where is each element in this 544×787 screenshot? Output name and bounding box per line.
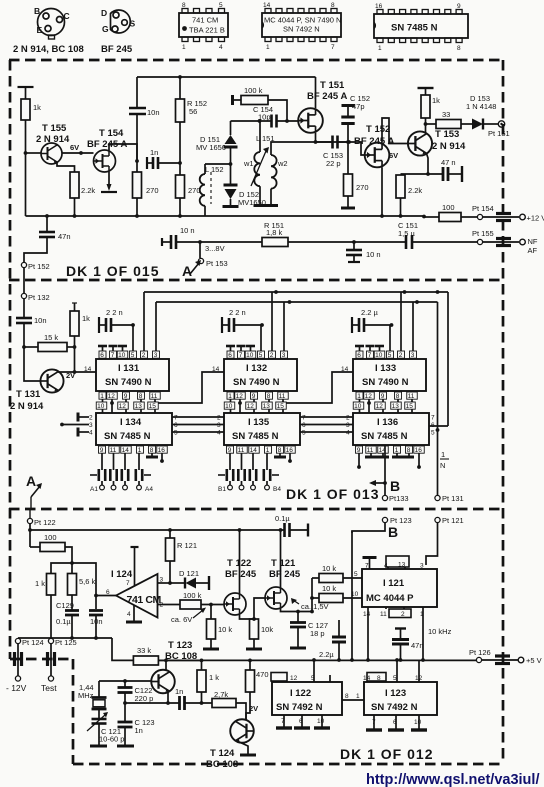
svg-text:12: 12: [108, 393, 116, 400]
svg-text:BC 108: BC 108: [206, 759, 238, 770]
wire rail right end up to 100 ohm: [422, 215, 426, 219]
bottom rail DK015: [26, 215, 425, 217]
wire T155 collector to T154 gate: [62, 152, 94, 154]
wire T154 drain to 10n column: [109, 144, 137, 161]
wire 1k to rail: [25, 120, 27, 216]
svg-text:3...8V: 3...8V: [205, 244, 225, 253]
svg-text:S: S: [130, 19, 136, 29]
terminal Pt124: [15, 638, 20, 643]
svg-text:A4: A4: [145, 486, 153, 493]
ground bar pin8: [279, 453, 281, 456]
svg-text:BF 245: BF 245: [225, 569, 257, 580]
svg-text:1: 1: [378, 45, 382, 52]
svg-text:B4: B4: [273, 486, 281, 493]
svg-text:A: A: [26, 473, 37, 489]
svg-text:11: 11: [408, 393, 415, 400]
wire T153 emitter: [427, 154, 429, 175]
svg-text:3: 3: [420, 563, 424, 570]
svg-text:N: N: [440, 461, 445, 470]
svg-text:12: 12: [247, 403, 255, 410]
IC package MC4044P/SN7490N/SN7492N: [262, 2, 341, 51]
svg-text:T 124: T 124: [210, 748, 235, 759]
wire T122 drain: [239, 530, 241, 593]
svg-text:14: 14: [363, 675, 371, 682]
svg-text:3: 3: [411, 352, 415, 359]
svg-text:1,8 k: 1,8 k: [266, 228, 283, 237]
svg-text:w1: w1: [243, 159, 254, 168]
svg-text:10: 10: [246, 352, 254, 359]
svg-text:B1: B1: [218, 486, 226, 493]
capacitor C153 22p (series): [316, 141, 333, 143]
capacitor 2.2 &#181;: [351, 317, 353, 333]
svg-text:13: 13: [135, 403, 143, 410]
resistor 270 (R152 column): [176, 175, 185, 198]
svg-text:+5 V: +5 V: [526, 656, 542, 665]
svg-text:SN 7485 N: SN 7485 N: [232, 431, 279, 442]
svg-text:I 124: I 124: [111, 569, 133, 580]
svg-text:12: 12: [236, 393, 244, 400]
node T155 base: [24, 151, 28, 155]
svg-text:6V: 6V: [389, 151, 398, 160]
svg-text:100: 100: [442, 203, 455, 212]
resistor 270 (T154 drain column): [133, 172, 142, 198]
transistor can 2N914/BC108: [34, 6, 70, 39]
svg-text:10 k: 10 k: [322, 584, 336, 593]
svg-text:10k: 10k: [261, 625, 273, 634]
svg-text:NF: NF: [528, 237, 538, 246]
top rail DK015: [137, 76, 316, 78]
svg-text:7: 7: [331, 44, 335, 51]
resistor 10k (T122 source): [250, 619, 259, 639]
resistor 1k (T155 base): [21, 99, 30, 120]
I121 pin7 supply bar: [369, 558, 371, 569]
border bottom edge: [73, 763, 503, 766]
svg-text:+12 V: +12 V: [527, 214, 544, 223]
svg-text:12: 12: [376, 403, 384, 410]
capacitor C127 18p: [297, 612, 299, 623]
svg-text:1n: 1n: [175, 687, 183, 696]
svg-text:DK 1 OF 012: DK 1 OF 012: [340, 746, 433, 762]
svg-text:2.2k: 2.2k: [408, 186, 422, 195]
wire T131 to I131 pin14: [58, 371, 96, 373]
svg-text:10: 10: [354, 403, 362, 410]
IC I 133 SN 7490 N: [389, 325, 391, 359]
border left edge: [9, 60, 12, 659]
svg-text:6: 6: [228, 352, 232, 359]
opamp pin7 stub: [134, 547, 136, 587]
IC I 131 SN 7490 N: [132, 325, 134, 359]
svg-text:T 152: T 152: [366, 124, 390, 135]
I121 jumper pins 11-2: [385, 607, 387, 609]
svg-text:0.1µ: 0.1µ: [275, 514, 290, 523]
svg-text:8: 8: [182, 2, 186, 9]
svg-text:SN 7490 N: SN 7490 N: [105, 377, 152, 388]
wire I122 to I123: [342, 699, 364, 701]
capacitor 10n: [89, 609, 103, 612]
IC I123 SN7492N: [364, 682, 437, 715]
svg-text:15: 15: [149, 403, 157, 410]
svg-text:7: 7: [365, 563, 369, 570]
svg-text:3: 3: [89, 422, 93, 429]
wire I123 pin5 to rail: [396, 660, 398, 682]
svg-text:220 p: 220 p: [135, 694, 154, 703]
terminal Pt123: [382, 517, 387, 522]
terminal -12V: [15, 676, 20, 681]
svg-text:L 152: L 152: [205, 165, 224, 174]
svg-text:10-60 p: 10-60 p: [99, 735, 124, 744]
terminal Pt131: [435, 495, 440, 500]
svg-text:10n: 10n: [90, 617, 103, 626]
emitter line y703: [125, 702, 179, 704]
svg-text:Test: Test: [41, 683, 57, 693]
resistor 10k (to pin5): [311, 578, 313, 612]
svg-text:D 121: D 121: [179, 569, 199, 578]
svg-text:D: D: [101, 8, 107, 18]
svg-text:14: 14: [363, 611, 371, 618]
svg-text:4: 4: [217, 430, 221, 437]
svg-text:270: 270: [356, 183, 369, 192]
svg-text:12: 12: [365, 393, 373, 400]
svg-text:T 131: T 131: [16, 389, 41, 400]
NF output line: [162, 241, 171, 243]
svg-text:I 121: I 121: [383, 578, 405, 589]
svg-text:10 k: 10 k: [322, 564, 336, 573]
resistor 2.2k (T155 emitter): [70, 172, 79, 198]
capacitor 10n (AF line): [170, 235, 173, 249]
svg-text:10: 10: [118, 352, 126, 359]
wire rail to capacitor 10n: [136, 77, 138, 108]
ground bar pin8: [151, 453, 153, 456]
transistor T124: [230, 719, 254, 743]
svg-text:10: 10: [375, 352, 383, 359]
svg-text:SN 7492 N: SN 7492 N: [283, 25, 320, 34]
svg-text:BF 245: BF 245: [101, 44, 133, 55]
svg-text:2.2µ: 2.2µ: [319, 650, 334, 659]
wires I134 outputs to I135 inputs: [172, 416, 224, 418]
svg-text:DK 1 OF 013: DK 1 OF 013: [286, 486, 379, 502]
transistor can BF245: [101, 8, 136, 34]
capacitor 10n (drain decoupling): [129, 107, 146, 110]
separator DK015/DK013: [9, 279, 503, 282]
capacitor 2.2u: [338, 620, 340, 637]
svg-text:2 N 914: 2 N 914: [432, 141, 466, 152]
svg-text:8: 8: [331, 2, 335, 9]
svg-text:8: 8: [345, 693, 349, 700]
feedthrough capacitor +12V: [496, 212, 511, 215]
svg-text:T 123: T 123: [168, 640, 192, 651]
resistor 2.7k: [212, 699, 236, 708]
supply T-bar over 1k right: [418, 87, 434, 89]
jumper field A1..A4: [101, 453, 103, 470]
svg-text:741 CM: 741 CM: [192, 16, 218, 25]
5V rail: [158, 659, 477, 661]
wire to 15k: [23, 323, 25, 347]
wire base T155: [26, 152, 42, 154]
transistor T153: [408, 131, 432, 155]
svg-text:MHz: MHz: [78, 691, 94, 700]
wire T151 source down: [315, 133, 317, 142]
svg-text:1k: 1k: [432, 96, 440, 105]
feedthrough capacitor +5V: [495, 654, 510, 657]
svg-text:15: 15: [406, 403, 414, 410]
svg-text:4: 4: [219, 44, 223, 51]
svg-text:6: 6: [100, 352, 104, 359]
svg-text:100 k: 100 k: [244, 86, 263, 95]
svg-text:AF: AF: [528, 246, 538, 255]
diode D152 MV1650 (varactor): [230, 164, 232, 184]
resistor 270 (C152 column): [344, 174, 353, 196]
opamp pin4 ground: [133, 605, 135, 621]
resistor 1k: [51, 563, 72, 574]
border bottom-left jog vertical: [72, 659, 75, 764]
svg-text:56: 56: [189, 107, 197, 116]
svg-text:2: 2: [142, 352, 146, 359]
wire I132 pin11 to I133 pin14: [283, 372, 353, 403]
svg-text:R 121: R 121: [177, 541, 197, 550]
resistor 10k (bias): [210, 605, 212, 620]
wire Pt123 to divider line: [352, 523, 385, 534]
diode D121: [170, 582, 185, 584]
svg-text:T 155: T 155: [42, 123, 67, 134]
svg-text:MV 1650: MV 1650: [196, 143, 226, 152]
svg-text:7: 7: [431, 415, 435, 422]
svg-text:2: 2: [217, 415, 221, 422]
svg-text:10 n: 10 n: [366, 250, 381, 259]
resistor 100: [30, 546, 40, 548]
svg-text:741 CM: 741 CM: [127, 594, 162, 606]
wire T123 emitter: [167, 693, 169, 704]
svg-text:10: 10: [414, 719, 422, 726]
svg-text:DK 1 OF 015: DK 1 OF 015: [66, 263, 159, 279]
svg-text:w2: w2: [277, 159, 288, 168]
IC package SN7485N: [374, 3, 468, 52]
svg-text:100: 100: [44, 533, 57, 542]
svg-text:T 154: T 154: [99, 128, 124, 139]
svg-text:SN 7485 N: SN 7485 N: [104, 431, 151, 442]
terminal +12V: [520, 214, 526, 220]
resistor 100 to +12V: [424, 216, 439, 218]
svg-text:8: 8: [396, 393, 400, 400]
svg-text:Pt 153: Pt 153: [206, 259, 228, 268]
svg-text:7: 7: [111, 352, 115, 359]
svg-text:4: 4: [127, 611, 131, 618]
wire T151 drain to rail: [315, 77, 317, 108]
wire I121 pin1 to 5V rail: [422, 607, 424, 660]
svg-text:0.1µ: 0.1µ: [56, 617, 71, 626]
svg-text:10 kHz: 10 kHz: [428, 627, 452, 636]
terminal Pt153: [198, 258, 203, 263]
feedthrough capacitor NF: [496, 237, 511, 240]
terminal Pt125: [48, 638, 53, 643]
terminal Pt122: [27, 518, 32, 523]
svg-text:Pt 124: Pt 124: [22, 638, 44, 647]
wire base T131: [24, 347, 41, 381]
wire Pt132 down: [23, 299, 25, 318]
svg-text:11: 11: [380, 611, 387, 618]
op-amp I124 741CM: [116, 574, 158, 618]
I136 pin14 to node B: [384, 445, 386, 495]
svg-text:12: 12: [119, 403, 127, 410]
svg-text:Pt 154: Pt 154: [472, 204, 494, 213]
capacitor C123 1n: [124, 693, 126, 722]
svg-text:1: 1: [228, 393, 232, 400]
resistor 100k (T151 gate bias): [231, 95, 234, 105]
svg-text:Pt133: Pt133: [389, 494, 409, 503]
transistor T121 (FET): [265, 587, 287, 609]
svg-text:15: 15: [277, 403, 285, 410]
svg-text:14: 14: [263, 2, 271, 9]
terminal Pt155: [477, 239, 482, 244]
svg-text:B: B: [390, 478, 401, 494]
IC I 136 SN 7485 N: [353, 413, 429, 445]
wire T121 drain: [280, 530, 282, 587]
transistor T152 (FET): [365, 143, 390, 168]
svg-text:11: 11: [279, 393, 286, 400]
svg-text:E: E: [37, 25, 43, 35]
svg-text:10: 10: [225, 403, 233, 410]
svg-text:9: 9: [381, 393, 385, 400]
capacitor 10n (shunt): [352, 240, 356, 244]
svg-text:6: 6: [357, 352, 361, 359]
svg-text:I 131: I 131: [118, 363, 140, 374]
bus line lower: [156, 301, 438, 303]
capacitor 10n (input): [16, 317, 32, 320]
I136 pin6 net: [429, 425, 448, 427]
wire pin3 input: [158, 582, 171, 584]
svg-text:14: 14: [84, 366, 92, 373]
svg-text:7: 7: [239, 352, 243, 359]
svg-text:http://www.qsl.net/va3iul/: http://www.qsl.net/va3iul/: [366, 772, 539, 787]
resistor 100k: [158, 604, 181, 606]
svg-text:TBA 221 B: TBA 221 B: [189, 26, 225, 35]
svg-text:11: 11: [151, 393, 158, 400]
svg-text:1n: 1n: [135, 726, 143, 735]
wire T121 source node: [281, 609, 313, 612]
svg-text:6: 6: [174, 422, 178, 429]
terminal Pt121: [435, 517, 440, 522]
terminal +5V: [518, 657, 524, 663]
svg-text:SN 7492 N: SN 7492 N: [276, 702, 323, 713]
svg-text:SN 7492 N: SN 7492 N: [371, 702, 418, 713]
resistor 10k (to pin10): [310, 596, 314, 600]
svg-text:7: 7: [368, 352, 372, 359]
svg-text:Pt 151: Pt 151: [488, 129, 510, 138]
svg-text:47p: 47p: [352, 102, 365, 111]
svg-text:10n: 10n: [34, 316, 47, 325]
wire T122 source to T121: [240, 598, 266, 619]
svg-text:2: 2: [346, 415, 350, 422]
terminal NF/AF: [520, 239, 526, 245]
svg-text:6: 6: [106, 589, 110, 596]
border right edge: [502, 60, 505, 764]
IC I122 SN7492N: [272, 682, 342, 715]
svg-text:18 p: 18 p: [310, 629, 325, 638]
svg-text:13: 13: [392, 403, 400, 410]
resistor 1k (T131 collector): [70, 311, 79, 336]
svg-text:G: G: [102, 24, 109, 34]
capacitor C151 1.5u: [405, 235, 408, 249]
svg-text:33 k: 33 k: [137, 646, 151, 655]
terminal Test: [48, 676, 53, 681]
svg-text:Pt 126: Pt 126: [469, 648, 491, 657]
svg-text:T 153: T 153: [435, 129, 459, 140]
capacitor C154 10p: [270, 115, 273, 128]
svg-text:SN 7485 N: SN 7485 N: [391, 23, 438, 34]
crystal 1.44MHz: [98, 681, 100, 697]
svg-text:1: 1: [182, 44, 186, 51]
svg-text:T 121: T 121: [271, 558, 296, 569]
wire T152 source to rail: [381, 168, 383, 217]
svg-text:B: B: [388, 524, 399, 540]
IC I 132 SN 7490 N: [260, 325, 262, 359]
supply rail Pt124/Pt125: [18, 637, 112, 639]
terminal Pt152: [21, 262, 26, 267]
wire Pt152 to Pt132: [23, 268, 25, 293]
diode D153 1N4148: [472, 119, 483, 130]
svg-text:2.2k: 2.2k: [81, 186, 95, 195]
svg-text:I 132: I 132: [246, 363, 267, 374]
capacitor 47n (10kHz filter): [395, 627, 406, 629]
svg-text:I 135: I 135: [248, 417, 270, 428]
resistor 470 (T124 collector): [249, 660, 251, 670]
svg-text:47n: 47n: [411, 641, 424, 650]
svg-text:22 p: 22 p: [326, 159, 341, 168]
svg-text:I 136: I 136: [377, 417, 398, 428]
svg-text:4: 4: [89, 430, 93, 437]
svg-text:3: 3: [346, 422, 350, 429]
wire I122 pin5 to rail: [313, 660, 315, 682]
transistor T155: [41, 143, 62, 164]
variable inductor arrow: [251, 151, 266, 186]
svg-text:1n: 1n: [150, 148, 158, 157]
wire I131 pin11 to I132 pin14: [155, 372, 224, 403]
svg-text:BF 245 A: BF 245 A: [307, 91, 347, 102]
svg-text:6V: 6V: [70, 143, 79, 152]
IC I 135 SN 7485 N: [224, 413, 300, 445]
resistor R152 56: [179, 77, 181, 99]
trimmer C121 10-60p: [98, 709, 100, 719]
svg-text:15 k: 15 k: [44, 333, 58, 342]
jumper field B1..B4: [229, 453, 231, 470]
svg-text:I 123: I 123: [385, 688, 406, 699]
svg-text:1: 1: [356, 693, 360, 700]
svg-text:1 k: 1 k: [209, 673, 219, 682]
svg-text:1: 1: [266, 44, 270, 51]
svg-text:8: 8: [457, 45, 461, 52]
resistor 15k: [24, 346, 38, 348]
terminal Pt132: [21, 293, 26, 298]
I134 input stubs with bars: [78, 416, 89, 418]
I136 ground bars: [370, 453, 372, 456]
T124 emitter ground: [236, 741, 248, 755]
divider net B vertical: [351, 531, 353, 660]
svg-text:5: 5: [354, 571, 358, 578]
svg-text:1: 1: [441, 450, 445, 459]
svg-text:SN 7490 N: SN 7490 N: [362, 377, 409, 388]
svg-text:1 k: 1 k: [35, 579, 45, 588]
svg-text:7: 7: [174, 415, 178, 422]
supply stub T-bar over R 1k left: [18, 86, 34, 88]
svg-text:7: 7: [302, 415, 306, 422]
wire I121 pin14 to 5V rail: [367, 607, 369, 660]
svg-text:B: B: [34, 6, 40, 16]
svg-text:10n: 10n: [147, 108, 160, 117]
svg-text:Pt 121: Pt 121: [442, 516, 464, 525]
svg-text:10: 10: [317, 718, 325, 725]
border bottom-left jog horizontal: [10, 658, 73, 661]
svg-text:10: 10: [97, 403, 105, 410]
svg-text:9: 9: [252, 393, 256, 400]
